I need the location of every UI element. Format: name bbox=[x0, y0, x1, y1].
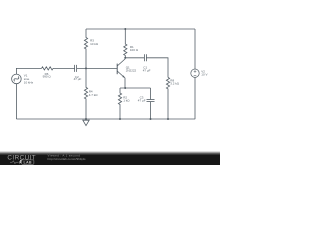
ground bbox=[83, 119, 89, 126]
resistor R4 bbox=[84, 68, 87, 119]
wire collector to C1 bbox=[125, 57, 144, 59]
resistor R6 bbox=[42, 67, 54, 70]
svg-text:10 kHz: 10 kHz bbox=[24, 80, 34, 84]
svg-text:2N2222: 2N2222 bbox=[126, 69, 137, 73]
wire V1 bottom bbox=[15, 84, 17, 119]
wire V2 bottom bbox=[194, 77, 196, 119]
wire C2 to base bbox=[77, 67, 117, 69]
node base junction bbox=[85, 67, 87, 69]
svg-text:47 µF: 47 µF bbox=[74, 77, 82, 81]
svg-text:990 Ω: 990 Ω bbox=[43, 75, 52, 79]
svg-text:1 kΩ: 1 kΩ bbox=[123, 99, 130, 103]
node R2 bottom junction bbox=[119, 118, 121, 120]
resistor R1 bbox=[124, 29, 127, 58]
node R8 bottom junction bbox=[167, 118, 169, 120]
wire R6 to C2 bbox=[53, 67, 75, 69]
top rail wire bbox=[86, 28, 195, 30]
node R1 top junction bbox=[124, 28, 126, 30]
voltage source V1 bbox=[12, 74, 22, 84]
capacitor C1 bbox=[144, 54, 146, 61]
capacitor C2 bbox=[75, 65, 77, 72]
svg-text:LAB: LAB bbox=[24, 160, 32, 164]
svg-text:http://circuitlab.com/c/9hfq4s: http://circuitlab.com/c/9hfq4s bbox=[48, 157, 87, 161]
wire V1 top to input bbox=[16, 68, 41, 74]
svg-text:3.2 kΩ: 3.2 kΩ bbox=[170, 82, 180, 86]
node emitter junction bbox=[124, 87, 126, 89]
resistor R2 bbox=[118, 88, 121, 119]
capacitor C3 bbox=[147, 88, 155, 119]
bottom rail wire bbox=[16, 118, 195, 120]
resistor R3 bbox=[84, 29, 87, 68]
svg-text:10 V: 10 V bbox=[201, 73, 207, 77]
wire emitter node bbox=[120, 87, 151, 89]
svg-text:4.7 kΩ: 4.7 kΩ bbox=[89, 93, 99, 97]
wire C1 to R8 bbox=[146, 58, 168, 78]
svg-text:100 Ω: 100 Ω bbox=[130, 48, 139, 52]
wire V2 branch bbox=[194, 29, 196, 69]
svg-text:47 µF: 47 µF bbox=[138, 99, 146, 103]
transistor Q1 bbox=[117, 58, 125, 88]
node C3 bottom junction bbox=[150, 118, 152, 120]
svg-text:47 µF: 47 µF bbox=[143, 69, 151, 73]
node ground junction bbox=[85, 118, 87, 120]
svg-text:10 kΩ: 10 kΩ bbox=[90, 42, 99, 46]
node collector junction bbox=[124, 57, 126, 59]
resistor R8 bbox=[166, 77, 169, 119]
voltage source V2 bbox=[191, 69, 199, 77]
